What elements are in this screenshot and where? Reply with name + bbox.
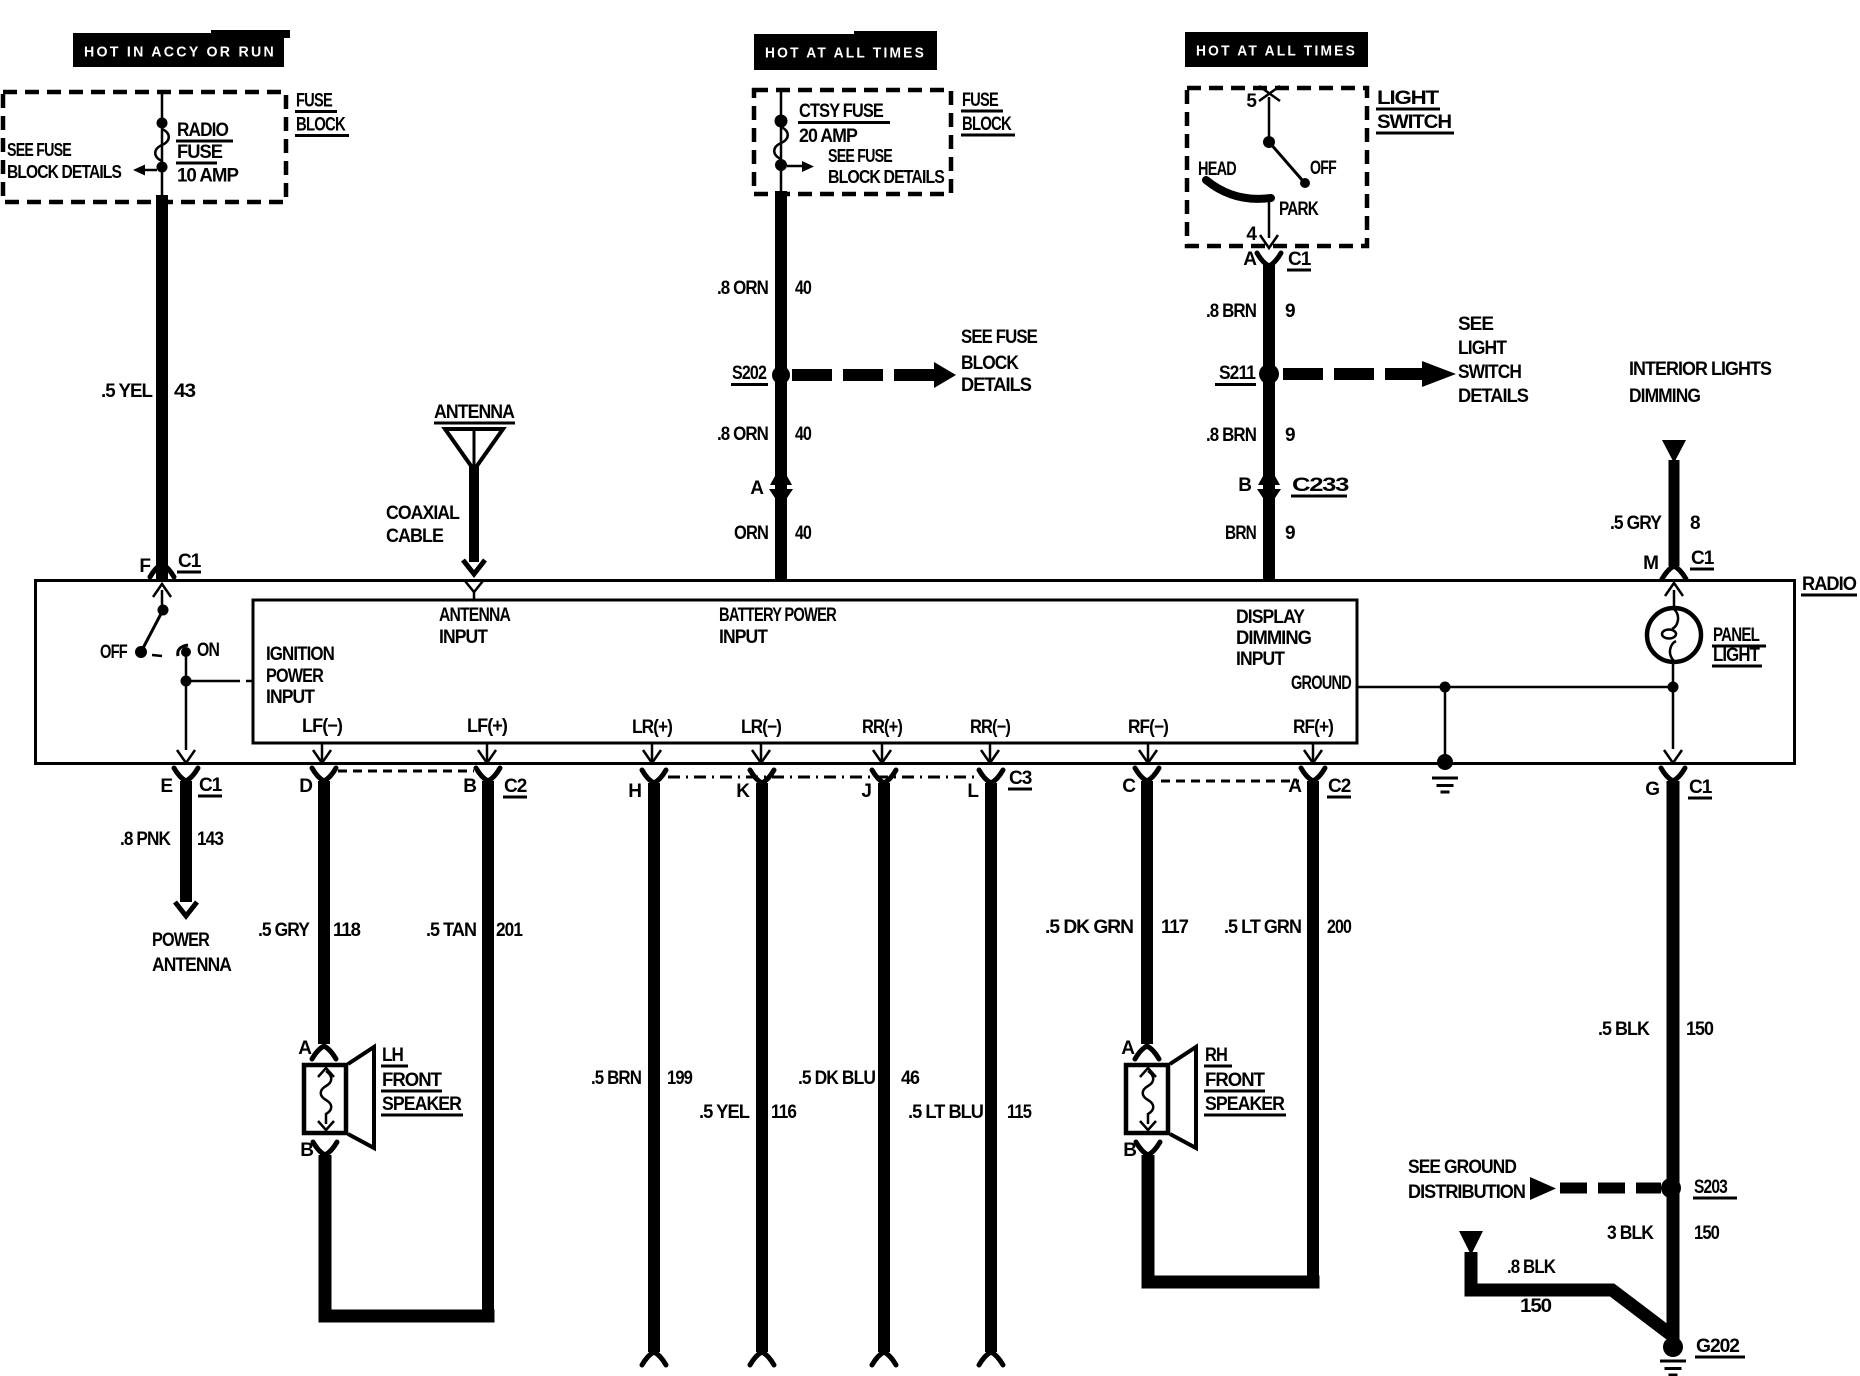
label BATTERY POWER INPUT: [719, 605, 837, 648]
terminal triangle (.8 BLK branch): [1459, 1231, 1483, 1255]
pin A connector C1 (light switch): [1243, 249, 1311, 272]
svg-text:A: A: [750, 478, 764, 499]
svg-text:SEE FUSE: SEE FUSE: [7, 140, 72, 160]
svg-text:.8 BRN: .8 BRN: [1206, 301, 1256, 322]
label RH FRONT SPEAKER: [1204, 1045, 1286, 1117]
svg-text:DIMMING: DIMMING: [1236, 628, 1311, 649]
arrow down at pin G inside radio: [1664, 750, 1682, 763]
label .5 LT BLU 115: [908, 1102, 1032, 1123]
svg-text:.5 YEL: .5 YEL: [101, 381, 153, 402]
label SEE LIGHT SWITCH DETAILS: [1458, 314, 1528, 407]
svg-text:C3: C3: [1009, 768, 1032, 789]
svg-text:ANTENNA: ANTENNA: [439, 605, 511, 626]
svg-text:8: 8: [1690, 513, 1700, 534]
fuse: CTSY FUSE 20 AMP: [774, 127, 788, 159]
wire .5 LT BLU 115: [985, 783, 997, 1352]
connector C2 dashed line C-A: [1161, 780, 1299, 783]
svg-text:118: 118: [333, 920, 360, 941]
svg-text:M: M: [1643, 553, 1658, 574]
svg-text:OFF: OFF: [1310, 158, 1336, 179]
label PANEL LIGHT: [1712, 625, 1766, 668]
pin E connector C1: [160, 768, 222, 798]
radio inner function box: [253, 600, 1357, 743]
label SEE FUSE BLOCK DETAILS (middle): [828, 146, 945, 187]
svg-text:.8 ORN: .8 ORN: [717, 278, 768, 299]
header HOT IN ACCY OR RUN: [73, 30, 290, 67]
svg-text:RADIO: RADIO: [177, 120, 228, 141]
svg-text:FRONT: FRONT: [382, 1070, 442, 1091]
wire: park contact to pin 4: [1268, 199, 1271, 238]
svg-text:SEE FUSE: SEE FUSE: [828, 146, 893, 166]
label .5 TAN 201: [426, 920, 523, 941]
splice S203: [1661, 1177, 1737, 1200]
svg-text:3 BLK: 3 BLK: [1607, 1223, 1654, 1244]
wire: LH speaker return: [319, 1155, 332, 1322]
svg-text:BLOCK DETAILS: BLOCK DETAILS: [7, 162, 122, 182]
svg-text:PARK: PARK: [1279, 199, 1319, 220]
svg-text:J: J: [861, 781, 871, 802]
svg-text:F: F: [139, 556, 150, 577]
junction: ctsy fuse top: [775, 115, 788, 128]
connector end L: [979, 1352, 1003, 1365]
svg-text:B: B: [463, 776, 476, 797]
svg-text:SWITCH: SWITCH: [1377, 112, 1451, 133]
svg-text:C1: C1: [1288, 249, 1312, 270]
connector end H: [642, 1352, 666, 1365]
wire .8 BRN 9 upper: [1263, 264, 1275, 580]
pin arrow LF(+): [478, 743, 496, 763]
svg-text:.8 BRN: .8 BRN: [1206, 425, 1256, 446]
speaker pin A connector (LH): [298, 1038, 336, 1059]
svg-text:RADIO: RADIO: [1802, 574, 1856, 595]
svg-text:115: 115: [1007, 1102, 1032, 1123]
dashed arrow: see ground distribution: [1530, 1177, 1661, 1200]
label .8 PNK 143: [120, 829, 223, 850]
svg-text:RR(+): RR(+): [862, 717, 903, 738]
wire: LH speaker loop bottom: [319, 1310, 495, 1323]
connector end J: [872, 1352, 896, 1365]
svg-text:HOT AT ALL TIMES: HOT AT ALL TIMES: [1196, 43, 1357, 60]
pin arrow RR(+): [873, 743, 891, 763]
svg-text:.5 LT BLU: .5 LT BLU: [908, 1102, 983, 1123]
svg-text:RF(−): RF(−): [1128, 717, 1169, 738]
svg-text:.5 GRY: .5 GRY: [258, 920, 310, 941]
svg-text:40: 40: [795, 424, 811, 445]
speaker pin A connector (RH): [1121, 1038, 1159, 1059]
wire: ON contact down to pin E: [185, 654, 188, 750]
svg-text:BATTERY POWER: BATTERY POWER: [719, 605, 837, 626]
wire: switch stem: [1268, 97, 1271, 138]
svg-text:GROUND: GROUND: [1291, 673, 1351, 694]
svg-text:RH: RH: [1205, 1045, 1227, 1066]
svg-text:DETAILS: DETAILS: [1458, 386, 1528, 407]
light switch dashed box: [1187, 88, 1367, 246]
header HOT AT ALL TIMES (middle): [754, 31, 937, 70]
wire: panel light to pin G: [1672, 662, 1675, 749]
svg-text:A: A: [298, 1038, 312, 1059]
label .5 GRY 8: [1610, 513, 1700, 534]
radio power switch arm: [142, 610, 163, 650]
svg-text:A: A: [1121, 1038, 1135, 1059]
pin G connector C1: [1645, 768, 1713, 800]
svg-text:OFF: OFF: [100, 642, 127, 663]
svg-text:FRONT: FRONT: [1205, 1070, 1265, 1091]
arrow at pin 4: [1260, 235, 1278, 248]
wire: fuse feed inside fuse block: [161, 92, 164, 197]
svg-text:ANTENNA: ANTENNA: [434, 402, 515, 423]
wire .8 BLK 150 branch: [1471, 1252, 1670, 1334]
svg-text:B: B: [1123, 1140, 1136, 1161]
label .5 YEL 116: [699, 1102, 796, 1123]
junction: ignition power tap: [181, 676, 192, 687]
arrow down at pin E inside radio: [177, 750, 195, 763]
label 3 BLK 150: [1607, 1223, 1719, 1244]
label ORN 40: [734, 523, 811, 544]
svg-text:FUSE: FUSE: [962, 90, 998, 111]
svg-text:INPUT: INPUT: [1236, 649, 1285, 670]
wire .5 YEL 116: [756, 783, 768, 1352]
svg-text:150: 150: [1686, 1019, 1713, 1040]
svg-text:.5 LT GRN: .5 LT GRN: [1224, 917, 1301, 938]
svg-text:150: 150: [1520, 1296, 1551, 1317]
wire .5 LT GRN 200: [1307, 781, 1319, 1288]
arrow up at pin M inside radio: [1665, 583, 1683, 608]
svg-text:9: 9: [1285, 425, 1295, 446]
ground net inside radio: [1357, 686, 1673, 689]
svg-text:CABLE: CABLE: [386, 526, 443, 547]
wire: ignition power input feed: [186, 680, 253, 683]
wire .5 DK GRN 117: [1141, 781, 1153, 1044]
pin H connector: [628, 770, 666, 802]
svg-text:IGNITION: IGNITION: [266, 644, 334, 665]
svg-text:.8 PNK: .8 PNK: [120, 829, 171, 850]
svg-text:.5 YEL: .5 YEL: [699, 1102, 750, 1123]
arrow into radio antenna input: [463, 560, 485, 574]
label BRN 9: [1225, 523, 1295, 544]
label FUSE BLOCK (middle): [961, 90, 1015, 137]
label DISPLAY DIMMING INPUT: [1236, 607, 1311, 670]
pin arrow LF(-): [313, 743, 331, 763]
svg-text:40: 40: [795, 523, 811, 544]
connector B C233 inline: [1238, 475, 1348, 498]
svg-text:DISPLAY: DISPLAY: [1236, 607, 1305, 628]
RH front speaker: [1126, 1047, 1196, 1148]
contact ON hook: [178, 645, 191, 657]
svg-text:.5 DK BLU: .5 DK BLU: [798, 1068, 875, 1089]
label .5 YEL 43: [101, 381, 195, 402]
svg-text:C1: C1: [178, 551, 202, 572]
svg-text:LIGHT: LIGHT: [1713, 645, 1760, 666]
wire: ground drop: [1444, 687, 1447, 757]
svg-text:HOT AT ALL TIMES: HOT AT ALL TIMES: [765, 45, 926, 62]
wire .8 PNK 143: [180, 781, 192, 902]
junction: radio fuse bottom: [157, 162, 168, 173]
svg-text:B: B: [300, 1140, 313, 1161]
svg-text:.5 BRN: .5 BRN: [591, 1068, 641, 1089]
svg-text:BLOCK DETAILS: BLOCK DETAILS: [828, 167, 945, 187]
label FUSE BLOCK (left): [295, 91, 349, 138]
svg-text:9: 9: [1285, 523, 1295, 544]
arrow: see fuse block details (middle): [787, 161, 814, 172]
svg-text:POWER: POWER: [266, 666, 324, 687]
wire .8 ORN 40 upper: [775, 191, 787, 580]
label SEE FUSE BLOCK DETAILS (left): [7, 140, 122, 182]
junction: switch pivot: [1263, 136, 1275, 148]
svg-text:LIGHT: LIGHT: [1458, 338, 1507, 359]
junction: ctsy fuse bottom: [775, 159, 787, 171]
label ANTENNA INPUT: [439, 605, 511, 648]
label POWER ANTENNA: [152, 930, 232, 976]
svg-text:201: 201: [496, 920, 523, 941]
svg-text:C1: C1: [1691, 548, 1715, 569]
junction: ground tap: [1440, 682, 1451, 693]
label RADIO: [1801, 574, 1857, 597]
svg-text:C: C: [1122, 776, 1136, 797]
label SEE FUSE BLOCK DETAILS (S202): [961, 327, 1037, 396]
wire: ctsy fuse feed: [780, 90, 783, 193]
ground symbol (radio case): [1432, 778, 1458, 792]
svg-text:116: 116: [771, 1102, 796, 1123]
wire .5 BRN 199: [648, 783, 660, 1352]
svg-text:LIGHT: LIGHT: [1377, 88, 1440, 109]
ground G202: [1660, 1336, 1745, 1375]
svg-text:46: 46: [901, 1068, 919, 1089]
svg-text:ON: ON: [197, 640, 219, 661]
svg-text:FUSE: FUSE: [177, 142, 222, 163]
svg-text:COAXIAL: COAXIAL: [386, 503, 460, 524]
svg-text:E: E: [160, 776, 172, 797]
svg-text:INPUT: INPUT: [439, 627, 488, 648]
LH front speaker: [304, 1047, 374, 1148]
antenna input receptacle: [465, 581, 483, 601]
svg-text:RF(+): RF(+): [1293, 717, 1334, 738]
svg-text:SEE FUSE: SEE FUSE: [961, 327, 1037, 348]
label CTSY FUSE 20 AMP: [798, 101, 890, 147]
label IGNITION POWER INPUT: [266, 644, 334, 708]
pin J connector: [861, 770, 896, 802]
svg-text:C2: C2: [504, 776, 527, 797]
connector C3 dash-dot line H-L: [668, 776, 977, 779]
svg-text:.5 TAN: .5 TAN: [426, 920, 476, 941]
wire .5 BLK 150: [1667, 781, 1680, 1341]
dashed arrow: see fuse block details from S202: [792, 362, 956, 388]
svg-text:.5 DK GRN: .5 DK GRN: [1045, 917, 1133, 938]
label ANTENNA: [434, 402, 515, 425]
wire .5 TAN 201: [482, 781, 494, 1322]
svg-text:10 AMP: 10 AMP: [177, 166, 239, 187]
svg-text:A: A: [1288, 776, 1302, 797]
ground terminal dot: [1437, 754, 1453, 770]
contact OFF dot (radio): [135, 646, 147, 658]
svg-text:S203: S203: [1694, 1177, 1727, 1198]
arrow to power antenna: [175, 902, 197, 916]
svg-text:INPUT: INPUT: [266, 687, 315, 708]
pin M connector C1 on radio: [1643, 548, 1715, 579]
svg-text:43: 43: [174, 381, 195, 402]
panel light bulb: [1647, 608, 1701, 662]
splice S211: [1215, 363, 1279, 386]
label .8 ORN 40 (lower): [717, 424, 811, 445]
label .5 DK GRN 117: [1045, 917, 1188, 938]
wire: RH speaker loop bottom: [1142, 1276, 1320, 1289]
wiper arc HEAD-PARK: [1206, 180, 1271, 199]
svg-text:LF(+): LF(+): [467, 716, 508, 737]
svg-text:C233: C233: [1292, 475, 1349, 496]
wire .5 GRY 8: [1669, 460, 1680, 566]
arrow up at pin F inside radio: [153, 584, 171, 612]
svg-text:INPUT: INPUT: [719, 627, 768, 648]
svg-text:.5 BLK: .5 BLK: [1598, 1019, 1650, 1040]
svg-text:40: 40: [795, 278, 811, 299]
svg-text:FUSE: FUSE: [296, 91, 332, 112]
label RADIO FUSE 10 AMP: [176, 120, 239, 187]
junction: radio fuse top: [157, 118, 168, 129]
wire .5 YEL 43: [156, 195, 168, 580]
pin F connector C1 on radio: [139, 551, 201, 577]
svg-text:.8 BLK: .8 BLK: [1507, 1257, 1556, 1278]
svg-text:CTSY FUSE: CTSY FUSE: [799, 101, 883, 122]
svg-text:DISTRIBUTION: DISTRIBUTION: [1408, 1182, 1525, 1203]
svg-text:DIMMING: DIMMING: [1629, 386, 1700, 407]
speaker pin B connector (RH): [1123, 1140, 1160, 1161]
svg-text:HOT IN ACCY OR RUN: HOT IN ACCY OR RUN: [84, 44, 276, 61]
coaxial cable wire: [469, 466, 479, 562]
svg-text:20 AMP: 20 AMP: [799, 126, 858, 147]
svg-text:LR(−): LR(−): [741, 717, 782, 738]
svg-text:DETAILS: DETAILS: [961, 375, 1031, 396]
svg-text:L: L: [967, 781, 979, 802]
pin arrow LR(+): [643, 743, 661, 763]
label COAXIAL CABLE: [386, 503, 460, 547]
svg-text:H: H: [628, 781, 641, 802]
svg-text:G202: G202: [1696, 1336, 1739, 1357]
svg-text:C1: C1: [199, 775, 223, 796]
label .5 DK BLU 46: [798, 1068, 919, 1089]
pin B connector C2: [463, 768, 527, 799]
label .5 BLK 150: [1598, 1019, 1713, 1040]
pin A connector C2: [1288, 768, 1351, 799]
pin arrow LR(-): [752, 743, 770, 763]
svg-text:B: B: [1238, 475, 1251, 496]
dashed arrow: see light switch details from S211: [1283, 361, 1456, 387]
label LIGHT SWITCH: [1376, 88, 1454, 135]
wire .5 DK BLU 46: [878, 783, 890, 1352]
fuse block (left) dashed box: [3, 92, 286, 202]
label .8 BRN 9 (upper): [1206, 301, 1295, 322]
svg-text:INTERIOR LIGHTS: INTERIOR LIGHTS: [1629, 359, 1771, 380]
label .5 BRN 199: [591, 1068, 692, 1089]
wire: RH speaker return: [1142, 1155, 1155, 1288]
svg-text:S202: S202: [732, 363, 766, 384]
pin C connector: [1122, 768, 1159, 797]
pin arrow RF(+): [1304, 743, 1322, 763]
contact OFF dot: [1300, 178, 1310, 188]
junction: panel light ground: [1668, 682, 1679, 693]
svg-text:.5 GRY: .5 GRY: [1610, 513, 1662, 534]
svg-text:SPEAKER: SPEAKER: [1205, 1094, 1285, 1115]
svg-text:LF(−): LF(−): [302, 716, 343, 737]
label INTERIOR LIGHTS DIMMING: [1629, 359, 1771, 407]
svg-text:9: 9: [1285, 301, 1295, 322]
svg-text:C2: C2: [1328, 776, 1351, 797]
label .8 ORN 40 (upper): [717, 278, 811, 299]
svg-text:SEE: SEE: [1458, 314, 1493, 335]
label LH FRONT SPEAKER: [381, 1045, 463, 1117]
svg-text:SWITCH: SWITCH: [1458, 362, 1521, 383]
svg-text:LH: LH: [382, 1045, 403, 1066]
label .5 LT GRN 200: [1224, 917, 1351, 938]
label .5 GRY 118: [258, 920, 360, 941]
arrow: see fuse block details (left): [133, 165, 157, 176]
svg-text:BRN: BRN: [1225, 523, 1256, 544]
label SEE GROUND DISTRIBUTION: [1408, 1157, 1525, 1203]
svg-text:150: 150: [1694, 1223, 1719, 1244]
pin arrow RR(-): [981, 743, 999, 763]
svg-text:200: 200: [1327, 917, 1351, 938]
contact X at pin 5: [1259, 86, 1280, 101]
dash between OFF and ON: [152, 655, 162, 656]
junction: radio power switch arm pivot: [158, 605, 169, 616]
speaker pin B connector (LH): [300, 1140, 337, 1161]
svg-text:A: A: [1243, 249, 1257, 270]
svg-text:199: 199: [667, 1068, 692, 1089]
svg-text:D: D: [299, 776, 312, 797]
svg-text:5: 5: [1246, 91, 1257, 112]
connector A inline (ORN wire): [750, 476, 793, 499]
svg-text:BLOCK: BLOCK: [296, 115, 346, 136]
svg-text:C1: C1: [1689, 777, 1713, 798]
terminal triangle (interior lights dimming): [1662, 440, 1686, 463]
pin L connector C3: [967, 768, 1032, 802]
connector C2 dashed line D-B: [338, 770, 474, 773]
svg-text:BLOCK: BLOCK: [961, 353, 1019, 374]
label .8 BRN 9 (lower): [1206, 425, 1295, 446]
svg-text:LR(+): LR(+): [632, 717, 673, 738]
svg-text:SPEAKER: SPEAKER: [382, 1094, 462, 1115]
antenna symbol: [445, 429, 503, 470]
svg-text:S211: S211: [1219, 363, 1256, 384]
svg-text:ANTENNA: ANTENNA: [152, 955, 232, 976]
svg-text:BLOCK: BLOCK: [962, 114, 1012, 135]
fuse block (middle) dashed box: [754, 90, 951, 194]
svg-text:K: K: [736, 781, 750, 802]
radio outer box: [36, 581, 1795, 764]
svg-text:.8 ORN: .8 ORN: [717, 424, 768, 445]
header HOT AT ALL TIMES (right): [1185, 32, 1368, 67]
fuse: RADIO FUSE 10 AMP: [155, 129, 169, 161]
pin arrow RF(-): [1139, 743, 1157, 763]
svg-text:PANEL: PANEL: [1713, 625, 1760, 646]
svg-text:G: G: [1645, 779, 1659, 800]
wire .5 GRY 118: [318, 781, 330, 1044]
splice S202: [731, 363, 790, 386]
pin K connector: [736, 770, 774, 802]
svg-text:SEE GROUND: SEE GROUND: [1408, 1157, 1516, 1178]
switch arm to OFF: [1269, 142, 1303, 181]
svg-text:RR(−): RR(−): [970, 717, 1011, 738]
svg-text:117: 117: [1161, 917, 1188, 938]
svg-text:POWER: POWER: [152, 930, 210, 951]
connector end K: [750, 1352, 774, 1365]
svg-text:ORN: ORN: [734, 523, 768, 544]
svg-text:4: 4: [1246, 224, 1257, 245]
pin D connector: [299, 768, 336, 797]
svg-text:143: 143: [197, 829, 223, 850]
